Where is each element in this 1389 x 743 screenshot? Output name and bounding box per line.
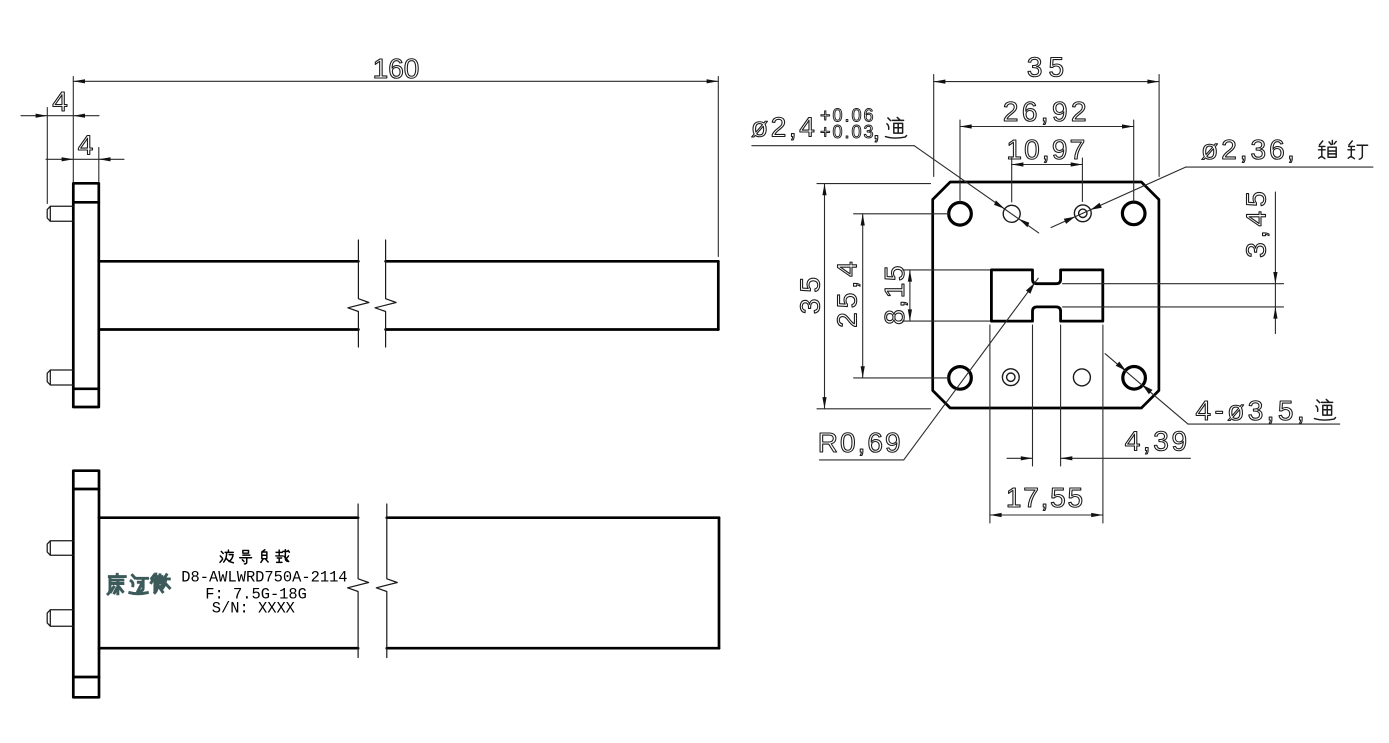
dim 4,39 extension left [1032,325,1034,466]
break line right view1 [375,240,396,347]
leader dia2,4 CJK tong [885,117,906,138]
svg-text:R0,69: R0,69 [818,427,903,458]
dim 4,39 arrow right pointing left [1061,456,1073,460]
dowel pin bottom double circle outer [1002,369,1019,386]
dim 26,92 extension left [959,120,961,202]
svg-text:4-ø3,5,: 4-ø3,5, [1196,395,1309,426]
dim 8,15 arrow bottom [908,309,912,321]
dim 4 second extension line [98,148,100,182]
dim 10,97 arrow right [1071,162,1083,166]
svg-text:26,92: 26,92 [1003,96,1090,127]
svg-text:S/N: XXXX: S/N: XXXX [212,600,295,618]
label text line1 CJK 波导负载 [220,550,289,564]
dim 26,92 dimension line [960,126,1134,128]
svg-text:3,45: 3,45 [1240,187,1271,258]
dim 4 first arrow left [36,114,48,118]
dim 4 first extension line [46,108,48,204]
waveguide body top edge right segment view2 [387,516,719,519]
dowel hole bottom single circle [1073,369,1090,386]
dim 4 second arrow right [99,157,111,161]
dim 4 second arrow left [62,157,74,161]
ridge gap upper line extended right [1063,283,1284,285]
flange top cap line view2 [73,488,99,491]
dim 160 arrow right [707,79,719,83]
dim 10,97 extension left [1011,158,1013,202]
waveguide body top edge right segment view1 [386,260,719,263]
dim 17,55 extension left [989,325,991,523]
svg-text:17,55: 17,55 [1006,482,1085,513]
leader 4-dia3,5 arrow upper [1116,362,1126,371]
waveguide body bottom edge right segment view2 [387,647,719,650]
dim 4 first arrow right [73,114,85,118]
dim 4,39 dimension line right part [1061,457,1191,459]
dim 160 extension line right [717,77,719,257]
dim 25,4 dimension line [862,214,864,378]
leader dia2,4 diagonal line [914,146,1038,233]
leader dia2,4 underline [752,145,914,147]
dim 35 top extension right [1158,75,1160,177]
svg-text:35: 35 [795,271,826,314]
dim 35 top dimension line [934,81,1159,83]
dim 35 top arrow right [1147,80,1159,84]
lower pin view1 [47,370,73,385]
dowel pin top double circle inner [1079,209,1087,217]
leader dia2,36 diagonal line [1051,167,1186,227]
dim 17,55 dimension line [990,514,1103,516]
dim 4,39 dimension line left part [1007,457,1033,459]
svg-text:+0.03: +0.03 [820,122,876,142]
dim 25,4 extension top [854,213,949,215]
waveguide body top edge left segment view1 [99,260,359,263]
svg-text:,: , [1287,134,1295,165]
dim 160 dimension line [73,80,718,82]
dim 4,39 extension right [1060,325,1062,466]
dim 8,15 extension top [903,269,990,271]
dim 25,4 arrow bottom [861,366,865,378]
svg-text:10,97: 10,97 [1006,134,1087,165]
logo 康迈微 [108,574,169,594]
flange body view1 [73,183,99,407]
dim 35 left extension top [817,183,931,185]
leader dia2,36 underline [1186,166,1373,168]
flange top cap line view1 [73,201,99,204]
dim 25,4 extension bottom [854,377,949,379]
dim 8,15 dimension line [909,270,911,321]
dim 3,45 arrow lower pointing up [1273,307,1277,319]
waveguide body right end edge view2 [718,518,721,649]
waveguide body top edge left segment view2 [99,516,358,519]
leader R0,69 arrowhead [1026,283,1035,294]
dim 160 extension line left [72,77,74,183]
dim 10,97 extension right [1081,158,1083,202]
waveguide body bottom edge left segment view1 [99,328,359,331]
leader 4-dia3,5 arrow lower [1142,385,1152,394]
flange bottom cap line view1 [73,387,99,390]
corner hole top-left [949,203,972,226]
dim 26,92 arrow right [1122,124,1134,128]
svg-text:8,15: 8,15 [879,264,910,325]
svg-text:ø2,36: ø2,36 [1201,134,1288,165]
leader dia2,36 arrow lower [1064,217,1075,224]
dowel pin bottom double circle inner [1007,373,1015,381]
leader 4-dia3,5 underline [1188,423,1340,425]
dim 35 left extension bottom [817,408,931,410]
leader dia2,36 CJK xiao-ding [1318,140,1367,159]
dim 160 arrow left [73,79,85,83]
svg-text:160: 160 [373,53,420,84]
dim 8,15 arrow top [908,270,912,282]
dim 4 second dimension line [46,158,124,160]
leader 4-dia3,5 diagonal line [1105,354,1188,424]
dim 35 top extension left [933,75,935,177]
flange octagon outline [933,182,1159,408]
leader dia2,4 arrow lower [1019,219,1030,228]
dim 8,15 extension bottom [903,320,990,322]
leader R0,69 diagonal line [904,278,1038,460]
dim 35 top arrow left [934,80,946,84]
flange bottom cap line view2 [73,676,99,679]
leader R0,69 underline [819,459,903,461]
dim 3,45 dimension line [1274,192,1276,334]
break line left view1 [348,240,369,347]
dim 17,55 arrow right [1091,513,1103,517]
svg-text:4,39: 4,39 [1125,426,1190,457]
dim 26,92 arrow left [960,124,972,128]
upper pin view2 [47,541,73,556]
upper pin view1 [47,206,73,221]
break line left view2 [348,504,369,658]
dim 10,97 dimension line [1012,164,1083,166]
waveguide body bottom edge right segment view1 [386,328,719,331]
svg-text:4: 4 [78,130,94,161]
dim 4 first dimension line [21,115,99,117]
waveguide aperture outline [991,270,1102,321]
dowel pin top double circle outer [1074,205,1091,222]
svg-text:,: , [873,114,881,145]
lower pin view2 [47,610,73,626]
dim 10,97 arrow left [1012,162,1024,166]
corner hole top-right [1122,202,1145,225]
waveguide body right end edge view1 [717,261,720,329]
leader dia2,4 arrow upper [994,200,1005,209]
leader dia2,36 arrow upper [1091,203,1102,210]
corner hole bottom-left [949,367,972,390]
svg-text:D8-AWLWRD750A-2114: D8-AWLWRD750A-2114 [181,569,347,587]
dim 35 left arrow bottom [822,397,826,409]
dim 17,55 arrow left [990,513,1002,517]
dowel hole top single circle [1003,205,1020,222]
ridge gap lower line extended right [1063,306,1284,308]
leader 4-dia3,5 CJK tong [1314,399,1335,420]
break line right view2 [376,504,397,658]
svg-text:4: 4 [52,86,68,117]
dim 25,4 arrow top [861,214,865,226]
dim 26,92 extension right [1133,120,1135,202]
svg-text:35: 35 [1027,51,1070,82]
waveguide body bottom edge left segment view2 [99,647,358,650]
svg-text:ø2,4: ø2,4 [751,112,817,143]
dim 17,55 extension right [1102,325,1104,523]
flange body view2 [73,471,99,698]
svg-text:25,4: 25,4 [832,257,863,328]
dim 3,45 arrow upper pointing down [1273,272,1277,284]
dim 35 left dimension line [824,184,826,409]
dim 35 left arrow top [822,184,826,196]
dim 4,39 arrow left pointing right [1021,456,1033,460]
corner hole bottom-right [1123,367,1146,390]
